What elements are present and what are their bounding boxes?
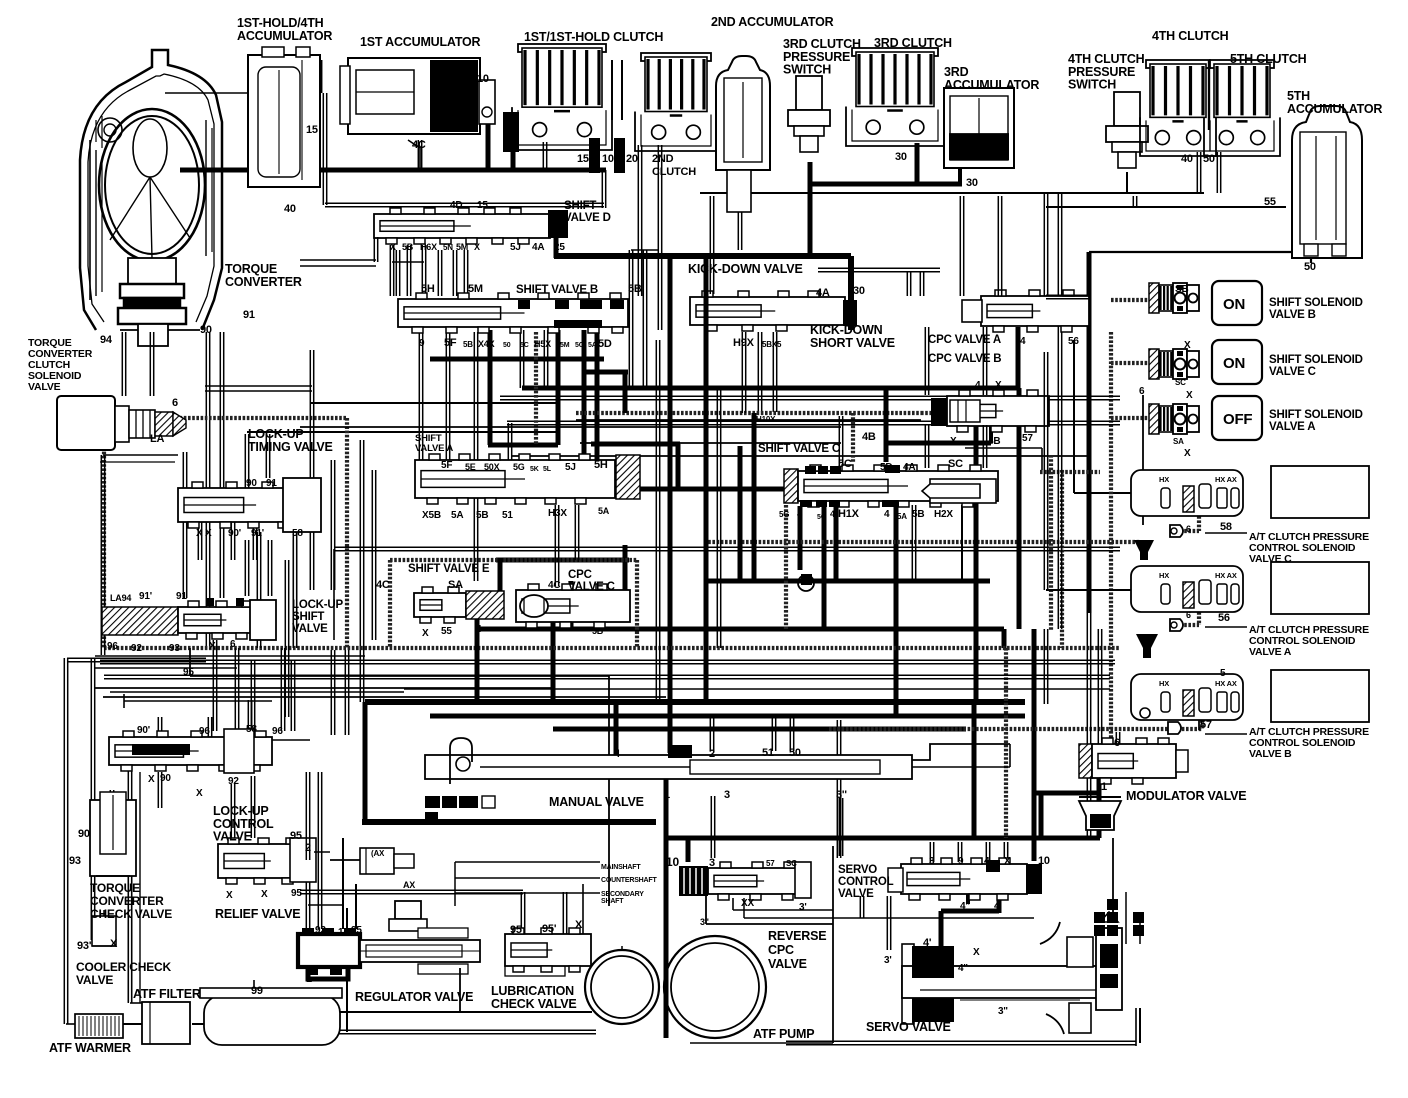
svg-text:30: 30 [895,151,907,163]
svg-text:H1X: H1X [838,508,860,520]
svg-text:SHIFT: SHIFT [292,611,324,623]
wire valve E bottom bold [475,619,480,702]
torque converter clutch solenoid valve [57,396,115,450]
5th accumulator [1292,106,1362,258]
wire 95 line [189,648,191,676]
svg-text:5: 5 [1220,668,1226,679]
svg-text:VALVE C: VALVE C [568,581,615,593]
svg-text:5B: 5B [592,626,604,636]
svg-text:6: 6 [1114,737,1120,749]
shift valve E [414,593,466,617]
wire hatched long y648 [104,646,1120,650]
wire bold elbow 583-628 [583,370,628,375]
servo control valve [901,864,1027,894]
wire modulator 1 bold [1097,775,1102,801]
wire H9X drops [757,332,759,412]
wire x347 lower drop [344,650,346,735]
svg-text:3RD CLUTCH: 3RD CLUTCH [874,36,952,50]
svg-text:X: X [110,938,118,950]
wire x962 SC drop [961,505,963,581]
wire thin x476 drop [473,332,475,581]
svg-text:CONVERTER: CONVERTER [225,275,302,289]
svg-text:X X: X X [196,528,212,539]
svg-text:TORQUE: TORQUE [90,881,140,895]
svg-text:VALVE: VALVE [76,973,113,987]
wire thin x719 drop [716,390,718,648]
svg-text:57: 57 [1022,433,1033,444]
wire long y662 pipe [148,659,1115,661]
svg-text:ATF WARMER: ATF WARMER [49,1041,131,1055]
wire bold y838 long line [666,836,1100,841]
svg-text:50: 50 [503,342,511,349]
wire thin x557 drop [554,505,556,586]
wire bold y489 line [545,487,784,492]
wire x914 drop [911,505,913,581]
svg-text:90': 90' [228,528,241,539]
svg-text:50: 50 [789,747,801,759]
svg-text:X: X [226,890,233,901]
svg-text:SECONDARY: SECONDARY [601,891,644,898]
wire thin y403 [310,402,560,404]
svg-text:X: X [1184,448,1191,459]
wire servo frame right [1135,1008,1137,1046]
wire x308 drop [305,772,307,860]
regulator lower bracket [505,962,565,976]
svg-text:X: X [196,788,203,799]
1st accumulator outlet valve [479,80,495,124]
wire bold y793 to modulator [1034,791,1101,796]
svg-text:5B: 5B [912,509,924,520]
wire TC check valve feeds [109,790,111,810]
wire x1046 lower segment [1043,629,1045,704]
wire x287 drop [284,560,286,717]
svg-text:4C: 4C [376,579,390,591]
wire 3rd clutch down [915,143,920,184]
wire thin y549 long [334,546,1120,548]
wire hatched y560 box [390,558,637,562]
svg-text:ON: ON [1223,355,1245,372]
wire x631 658 riser links [631,249,658,251]
svg-text:4B: 4B [988,436,1000,447]
wire x962 feed [959,196,961,296]
funnel restrictor upper [1134,540,1154,560]
svg-text:CHECK VALVE: CHECK VALVE [90,907,172,921]
svg-text:4': 4' [923,937,932,949]
torque converter lower shaft [138,324,168,346]
svg-text:1: 1 [306,973,312,985]
lock-up shift valve [102,607,178,635]
ATF pump [585,950,659,1024]
wire x841 804 drops to servo [838,798,840,856]
3rd accumulator [944,88,1014,168]
wire bold x1034 servo feed [1032,702,1037,861]
svg-text:93': 93' [77,940,92,952]
wire x398 pair [395,250,397,296]
svg-text:HX: HX [1159,679,1169,688]
svg-text:90': 90' [137,725,150,736]
wire x545 top stub [542,142,544,170]
wire servo 4' bold path [997,894,1002,913]
wire cpc feed drops [906,272,908,296]
wire thin pair y398 long [500,395,1120,397]
off box A [1212,396,1262,440]
svg-text:X: X [995,380,1002,391]
wire 3rd clutch pressure switch drop [808,162,813,258]
svg-text:SHIFT SOLENOID: SHIFT SOLENOID [1269,409,1363,421]
wire y262 tie [392,261,424,263]
wire thin y420 [576,419,921,421]
wire lubrication check feeds [300,889,523,891]
wire bold y629 [478,627,1004,632]
svg-text:VALVE B: VALVE B [1269,309,1316,321]
wire servo valve inner lines [956,989,1086,991]
wire valve D left exit [373,237,375,262]
svg-text:VALVE C: VALVE C [1269,366,1316,378]
wire lockup timing valve drops [244,540,246,596]
svg-text:CLUTCH: CLUTCH [652,166,696,178]
ATF filter [142,1002,190,1044]
svg-text:SHIFT VALVE B: SHIFT VALVE B [516,284,598,296]
svg-text:SHIFT VALVE C: SHIFT VALVE C [758,443,840,455]
svg-text:X: X [950,436,957,447]
svg-text:95: 95 [351,925,362,936]
svg-text:X4X: X4X [478,339,495,349]
svg-text:MAINSHAFT: MAINSHAFT [601,864,641,871]
wire control valve feeds [157,717,159,737]
modulator valve [1079,744,1092,778]
wire manual valve right hook [912,744,1010,760]
wire hatched row A stub [1197,608,1201,625]
wire thin y423 long [507,420,1120,422]
wire servo 3' line [886,896,888,950]
svg-text:58: 58 [246,724,257,735]
svg-text:10: 10 [666,855,679,869]
wire shift valve C port drops bold [798,506,803,570]
wire tc left drops [149,332,151,396]
1st/1st-hold clutch [518,44,606,52]
svg-text:40: 40 [284,203,296,215]
wire 1 drop to regulator [342,838,344,929]
svg-text:3'': 3'' [700,917,709,927]
shift solenoid valve A coil [1149,404,1159,434]
svg-text:4A: 4A [816,287,830,299]
svg-text:55: 55 [1264,196,1276,208]
wire valve D long drops [628,250,630,390]
svg-text:REGULATOR VALVE: REGULATOR VALVE [355,990,473,1004]
svg-text:90: 90 [78,828,90,840]
svg-text:HX: HX [1159,475,1169,484]
svg-text:5C: 5C [520,342,529,349]
wire left y656 ties [95,655,237,657]
svg-text:51: 51 [502,510,513,521]
svg-text:SC: SC [948,458,963,470]
svg-text:3: 3 [724,789,730,801]
wire y662 left extension [100,659,148,661]
svg-text:30: 30 [966,177,978,189]
svg-text:X: X [973,947,980,958]
svg-text:CPC: CPC [768,943,794,957]
wire bold x974 drop [972,702,977,838]
wire reverse CPC 10 bold [686,838,691,862]
wire y692 long [110,691,404,693]
svg-text:MANUAL VALVE: MANUAL VALVE [549,795,644,809]
svg-text:5K: 5K [530,466,539,473]
svg-text:1: 1 [664,789,670,801]
wire y740 left tie [215,739,310,741]
svg-text:5F: 5F [444,337,457,349]
wire x333 drop [330,460,332,590]
shift valve C [784,469,798,503]
svg-text:56: 56 [1218,612,1230,624]
A/T clutch pressure control solenoid valve C [1131,470,1243,516]
svg-text:VALVE B: VALVE B [1249,748,1292,760]
svg-text:55: 55 [441,626,452,637]
svg-text:96: 96 [107,641,118,652]
svg-text:VALVE: VALVE [292,623,328,635]
lubrication check valve [505,934,591,966]
wire top 4C path [408,140,420,170]
wire clutch pressure thin line [700,192,1204,194]
wire thin y427 [300,426,841,428]
svg-text:95: 95 [183,667,194,678]
wire top y93 tc link [165,92,248,94]
svg-text:CONVERTER: CONVERTER [90,894,164,908]
wire servo actuator stem [1112,838,1114,918]
svg-text:HX AX: HX AX [1215,475,1237,484]
A/T clutch pressure control solenoid valve A [1131,566,1243,612]
wire hatched 5C corner [851,413,855,462]
2nd accumulator [716,56,770,170]
on box B [1212,281,1262,325]
torque converter check valve [90,800,136,876]
svg-text:90: 90 [200,324,212,336]
wire timing valve top feeds [244,434,246,488]
svg-text:30: 30 [853,285,865,297]
svg-text:5C: 5C [575,342,584,349]
svg-text:92: 92 [228,776,239,787]
CPC valve A assembly [981,296,1089,326]
svg-text:CPC: CPC [568,569,592,581]
wire bold y581 [706,579,990,584]
svg-text:56: 56 [1068,336,1079,347]
wire hatch x536 drop [534,332,538,445]
svg-text:96: 96 [272,726,283,737]
svg-text:HX AX: HX AX [1215,571,1237,580]
wire x604 riser [601,170,603,208]
manual valve [425,755,912,779]
svg-text:5D: 5D [598,338,612,350]
3rd clutch [852,48,938,56]
wire bold x754 drop [752,413,757,581]
wire sol b wiring [1046,294,1090,296]
wire 10 from 1st accumulator [486,100,491,170]
svg-text:5H: 5H [421,283,435,295]
wire strainer to pump [340,1011,592,1013]
svg-text:(AX: (AX [371,849,385,858]
ball check row B mid [1168,722,1181,734]
svg-text:SWITCH: SWITCH [1068,78,1116,92]
svg-text:SHIFT SOLENOID: SHIFT SOLENOID [1269,354,1363,366]
svg-text:5B: 5B [463,340,473,349]
wire A/T CPC 6 line [1142,395,1144,525]
lock-up control valve [218,844,314,878]
wire 3rd accumulator down [958,162,962,184]
wire manual valve 4 port [614,702,619,755]
svg-text:XX: XX [741,898,754,909]
svg-text:5B: 5B [628,283,642,295]
svg-text:5D: 5D [880,462,892,473]
svg-text:X: X [390,242,396,252]
wire x140 pipe [139,772,141,1003]
wire bold x553 drop [551,590,556,702]
shift valve D [374,214,550,238]
svg-text:VALVE: VALVE [28,381,61,393]
svg-text:6: 6 [172,397,178,409]
svg-text:CONTROL: CONTROL [838,876,894,888]
wire 5th accum 55 horizontal [1046,206,1135,208]
svg-text:50: 50 [1304,261,1316,273]
svg-text:H9X: H9X [733,337,755,349]
svg-text:H3X: H3X [548,508,567,519]
wire 40 thin line [325,202,604,204]
svg-text:4TH CLUTCH: 4TH CLUTCH [1152,29,1229,43]
svg-text:4'': 4'' [958,963,968,974]
svg-text:5G: 5G [513,462,525,472]
wire relief valve links [330,859,360,861]
svg-text:VALVE C: VALVE C [1249,553,1292,565]
svg-text:ACCUMULATOR: ACCUMULATOR [944,78,1039,92]
wire 55 line 5th accumulator [1132,196,1134,207]
wire regulator to pump link [459,968,461,1012]
funnel restrictor lower [1136,634,1158,658]
wire bold x670 long drop [668,258,673,629]
wire x1089 lower doubles [1086,613,1088,838]
wire lockup shift valve drops [212,640,214,731]
svg-text:50X: 50X [484,462,500,472]
svg-text:X: X [148,774,155,785]
wire thin x658 drop [655,340,657,700]
svg-text:SERVO: SERVO [838,864,877,876]
svg-text:99: 99 [251,985,263,997]
svg-text:AX: AX [403,880,415,890]
svg-text:VALVE D: VALVE D [564,212,611,224]
svg-text:LA94: LA94 [110,593,131,603]
wire hatched branches to coils [1111,298,1149,302]
svg-text:91: 91 [176,591,187,602]
svg-text:1ST ACCUMULATOR: 1ST ACCUMULATOR [360,35,481,49]
svg-text:X: X [575,919,583,931]
wire shift valve D feeds [389,245,391,296]
wire bold x706 long drop [704,258,709,702]
wire bold y729 [553,727,966,732]
svg-text:VALVE: VALVE [213,830,252,844]
wire shift valve B bold drops [488,330,493,445]
wire y270 thin long [818,267,940,269]
svg-text:SA: SA [1173,437,1184,446]
wire H10X riser to shift valve C [838,416,840,466]
svg-text:VALVE A: VALVE A [415,443,453,454]
wire thin x374 drop [371,470,373,640]
svg-text:SWITCH: SWITCH [783,63,831,77]
wire CPC A to CPC B drops [924,327,926,395]
svg-text:5A: 5A [588,342,597,349]
svg-text:2: 2 [709,748,715,760]
wire hatched x1111 main drain [1109,332,1113,744]
wire left pipes upper [100,455,102,655]
svg-text:58: 58 [1220,521,1232,533]
svg-text:H5X: H5X [534,339,551,349]
wire valve D extra drops [437,250,439,296]
wire hatched 57 line y729 [829,727,1202,731]
svg-text:4: 4 [797,509,803,520]
svg-text:CHECK VALVE: CHECK VALVE [491,997,577,1011]
wire 58 56 57 stubs [1205,532,1247,534]
svg-text:6: 6 [1186,610,1191,620]
wire right mid pipes [1097,629,1099,744]
wire bold y560 hatch link [496,558,629,563]
CPC valve B assembly [931,398,947,426]
svg-text:91: 91 [266,478,277,489]
wire servo region frame [832,846,834,1043]
svg-text:4': 4' [994,901,1002,912]
wire SC thin corner [965,447,1042,449]
manual valve 25 port box [668,745,692,758]
wire bold x571 link [569,581,574,629]
wire y906 link [608,844,610,906]
shift solenoid valve C coil [1149,349,1159,379]
shift valve B [398,299,628,327]
wire long y677 pipe [152,674,1110,676]
svg-text:4: 4 [984,856,990,867]
svg-text:6: 6 [1139,386,1145,397]
svg-text:SHORT VALVE: SHORT VALVE [810,336,895,350]
svg-text:SC: SC [1175,378,1186,387]
svg-text:H2X: H2X [934,509,953,520]
svg-text:4'': 4'' [960,901,970,912]
svg-text:5A: 5A [451,510,463,521]
svg-text:95': 95' [542,923,557,935]
svg-text:57: 57 [766,859,775,868]
svg-text:ATF PUMP: ATF PUMP [753,1027,814,1041]
wire lower frame line [335,1029,596,1031]
wire hatched x1062 drop [1060,470,1064,648]
svg-text:2ND: 2ND [652,153,674,165]
svg-text:CPC VALVE A: CPC VALVE A [928,334,1001,346]
svg-text:4C: 4C [548,580,560,591]
wire y666 left [67,657,206,659]
svg-text:96: 96 [199,726,210,737]
svg-text:VALVE A: VALVE A [1269,421,1315,433]
wire valve E hatch feed [498,558,503,591]
wire left frame verticals [63,658,65,1024]
wire x453 drop to lub [454,893,456,906]
wire servo ctl to reverse link [859,896,861,918]
wire 40 bold feed line [180,168,606,173]
svg-text:5BX5: 5BX5 [762,340,782,349]
svg-text:X: X [209,641,216,652]
wire servo control valve top feeds [929,842,931,862]
wire mainshaft lines [455,861,600,863]
ball check 6 row C [1170,525,1183,537]
svg-text:10: 10 [602,153,614,165]
svg-text:VALVE A: VALVE A [1249,646,1292,658]
svg-text:4: 4 [975,380,981,391]
svg-text:4A: 4A [903,462,915,473]
svg-text:3'': 3'' [836,789,847,801]
svg-text:5J: 5J [510,242,521,253]
ball check 6 row A [1170,619,1183,631]
svg-text:3: 3 [709,857,715,869]
